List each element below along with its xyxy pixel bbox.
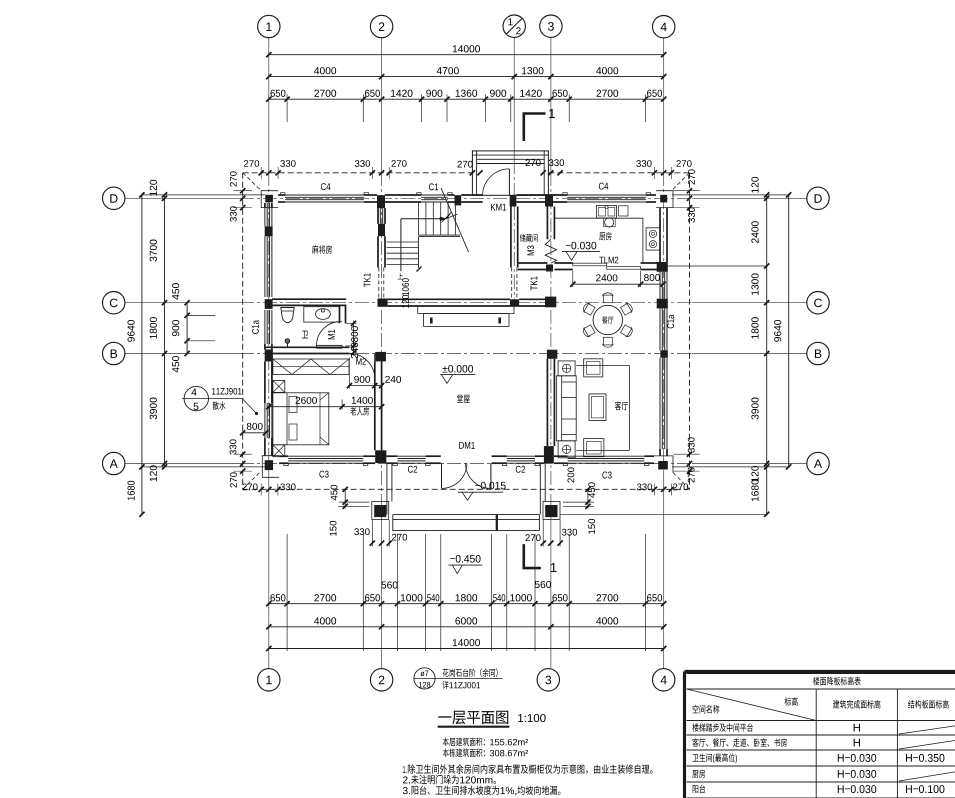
door M3 label — [527, 246, 534, 256]
window left mahjong glazing lower — [264, 236, 266, 297]
door TLM2 sliding leaves — [573, 263, 607, 266]
detail leader line with dot — [242, 399, 256, 414]
porch column left — [374, 505, 386, 517]
column D axis-2 — [377, 195, 385, 208]
bathroom label — [302, 331, 308, 339]
window C1a right label — [667, 315, 674, 329]
column A4 — [658, 461, 668, 470]
side table lower with lamp — [558, 441, 575, 458]
door M1 label — [328, 330, 335, 340]
note 1 — [403, 764, 652, 774]
stair landing edge double line — [418, 234, 460, 236]
step note text ref — [443, 681, 481, 689]
eave dim left bottom 330/270 rotated — [240, 452, 245, 457]
dining table round — [593, 305, 622, 334]
axis circle D right — [807, 187, 829, 209]
left extension lines horizontal — [142, 194, 265, 196]
corner pilaster outline D4 — [656, 191, 673, 208]
armchair upper — [584, 359, 603, 377]
window C1a right dining glazing — [659, 308, 661, 350]
door M1 dim 800 240 rotated — [353, 321, 355, 356]
kitchen counter edge — [554, 218, 643, 263]
door DM1 label — [459, 442, 475, 449]
section mark 1 top — [524, 114, 546, 142]
level table outer border — [685, 670, 955, 673]
wall B axis bathroom bottom — [265, 346, 350, 348]
window C1a right living glazing — [659, 358, 661, 449]
window C1 label — [429, 183, 438, 190]
eave overhang dashed line left — [242, 173, 244, 490]
column storage-kitchen junction — [546, 265, 553, 272]
side table upper with lamp — [558, 361, 575, 376]
wall axis-3 storage/kitchen — [546, 207, 548, 240]
right overall dimension 9640 — [788, 195, 790, 467]
right extension lines horizontal — [672, 194, 789, 196]
eave corner miter top-right — [672, 173, 690, 191]
column D axis-3 — [545, 195, 553, 207]
door M2 label — [356, 358, 366, 365]
porch column right — [545, 505, 557, 517]
level mark +-0.000 — [442, 365, 473, 373]
axis grid line 1 (vertical) — [268, 38, 270, 172]
column left wall mid mahjong — [265, 227, 273, 237]
porch column dim right 270/330 — [542, 520, 544, 547]
top dimension row 650..2700..650 — [269, 98, 664, 100]
wall left axis-1 segments — [264, 203, 266, 208]
wall axis-2 dashed opening under stair — [378, 268, 380, 298]
stair TK1 label left — [364, 273, 371, 287]
eave corner miter bottom-right — [672, 471, 690, 489]
column kitchen-sill axis-4 — [657, 262, 668, 272]
detail circle 4/5 — [184, 386, 208, 410]
door M2 swing arc — [374, 354, 376, 379]
axis circle 4 bottom — [653, 669, 675, 691]
coffee table — [589, 394, 606, 421]
floor drain — [285, 339, 290, 344]
main hall label — [457, 394, 470, 403]
eave dim top axis-2 330/270 — [370, 170, 375, 175]
door M3 folding zigzag — [545, 239, 556, 263]
level mark -0.015 porch — [475, 482, 506, 490]
column axis-2 mid mahjong wall — [378, 224, 385, 236]
axis grid line 2 (vertical) — [381, 38, 383, 172]
wall A axis solid segments — [279, 455, 288, 457]
top dimension extension lines — [286, 95, 288, 123]
bedroom label — [350, 407, 369, 415]
drawing title first floor plan — [438, 711, 508, 725]
axis circle C left — [103, 292, 125, 314]
window C3 right label — [602, 472, 611, 479]
wall C axis stair-hall bottom — [388, 298, 510, 300]
washbasin counter — [304, 307, 340, 322]
stair dim 1060 rotated — [402, 278, 409, 295]
window C4 left label — [321, 183, 330, 190]
column C axis-3 — [545, 297, 556, 308]
porch column dim left 330/270 — [371, 520, 373, 547]
axis circle 1 top — [258, 15, 280, 37]
door KM1 label — [491, 204, 506, 211]
window C1a left label — [252, 320, 259, 334]
eave dim bottom axis-4 330/270 — [652, 487, 657, 492]
column C axis-4 — [657, 299, 668, 309]
eave overhang dashed line right — [689, 173, 691, 490]
kitchen stove two burners — [646, 228, 660, 250]
window C2 left label — [408, 466, 417, 473]
axis circle 1 bottom — [258, 669, 280, 691]
wall axis-1/2 dashed opening — [511, 268, 513, 299]
nightstand lower — [273, 445, 285, 457]
sofa three-seat — [557, 376, 577, 441]
apron dim 800 — [243, 432, 266, 434]
column D axis-1/2 — [510, 195, 517, 206]
bed — [273, 393, 329, 445]
porch side edges left — [386, 463, 388, 514]
column B axis-3 — [547, 350, 557, 359]
porch column outline left — [372, 501, 389, 519]
axis grid line A (horizontal) — [125, 463, 240, 465]
kitchen basin round — [605, 218, 614, 227]
corner pilaster outline A1 — [262, 456, 279, 478]
stair flight boundary vertical — [417, 237, 419, 268]
porch side edges right — [544, 463, 546, 501]
eave overhang dashed line bottom — [243, 488, 690, 490]
door M2 dim 900 240 — [348, 358, 350, 389]
axis circle 4 top — [653, 16, 675, 38]
wall axis-2 stair/mahjong D-C — [377, 208, 379, 224]
column B axis-1 — [265, 350, 273, 362]
stair start tick — [417, 267, 422, 272]
top dimension row 14000 — [269, 54, 664, 56]
window C2 left glazing — [397, 455, 425, 457]
wall bathroom right — [339, 305, 341, 323]
eave dim top porch 270 — [470, 170, 475, 175]
window C3 left glazing — [288, 455, 363, 457]
column C axis-1 — [265, 299, 273, 309]
window left mahjong glazing upper — [264, 203, 266, 227]
kitchen dim 2400 800 — [572, 271, 574, 287]
porch steps — [393, 514, 540, 516]
hall platform below stair — [418, 306, 514, 313]
level table header labels — [785, 697, 798, 706]
window jamb marks top wall — [281, 193, 286, 195]
axis grid line 4 (vertical) — [663, 38, 665, 172]
window C4 right glazing — [567, 194, 646, 196]
window C1 glazing — [421, 194, 448, 196]
axis circle 2 top — [370, 15, 392, 37]
stair break zigzag — [442, 212, 458, 223]
step note circle phi7/128 — [414, 668, 435, 689]
right segment dimensions 120 2400 1300 1800 3900 120 1680 — [766, 195, 768, 514]
level table row 1 — [692, 723, 753, 732]
eave dim top axis-4 330/270 — [652, 170, 657, 175]
wall axis-3 hall/living B-A — [546, 359, 548, 446]
axis grid line C (horizontal) — [125, 302, 240, 304]
column C axis-2 — [378, 299, 388, 307]
window left bedroom glazing — [264, 403, 266, 438]
column C axis-1/2 — [510, 299, 519, 307]
eave dim right top 270/330 rotated — [687, 188, 692, 193]
wall axis-2 bedroom right B-A — [374, 361, 376, 450]
wardrobe — [273, 359, 349, 375]
section mark 1 bottom — [524, 544, 541, 568]
window C2 right label — [516, 466, 525, 473]
axis circle B right — [807, 342, 829, 364]
porch height dim right 450/150 — [587, 489, 589, 508]
column A axis-3 — [544, 446, 554, 463]
mahjong room label — [312, 245, 332, 254]
bedroom dim 2600 1400 — [341, 400, 343, 410]
axis circle 3 bottom — [537, 669, 559, 691]
corner pilaster outline D1 — [261, 191, 278, 208]
note area line 1 — [443, 737, 528, 746]
porch step center joint — [496, 515, 498, 531]
rug outline — [576, 365, 629, 367]
column B axis-4 — [660, 350, 667, 358]
stair up label — [398, 273, 403, 279]
entry porch walls — [472, 151, 548, 195]
axis circle B left — [103, 342, 125, 364]
axis circle A right — [807, 452, 829, 474]
window jamb marks bottom wall — [284, 463, 289, 465]
window C1a left (bathroom) glazing — [264, 310, 266, 344]
stair upper flight treads — [418, 202, 420, 235]
corner pilaster outline A4 — [654, 456, 673, 473]
stair TK1 label right — [531, 276, 538, 290]
bottom dimension row 14000 — [269, 648, 664, 650]
level mark -0.450 steps — [450, 555, 481, 563]
bottom dimension row 650.. — [269, 603, 664, 605]
eave dim top axis-3 270/330 — [541, 170, 546, 175]
left overall dimension 9640 — [141, 195, 143, 467]
eave dim left top 270/330 rotated — [240, 188, 245, 193]
wall right axis-4 segments — [659, 208, 661, 262]
living room label — [615, 401, 628, 410]
stair up arrow line — [400, 219, 402, 271]
dining chairs — [602, 293, 613, 303]
left sub dimensions 450 900 450 — [186, 303, 188, 354]
level mark -0.030 kitchen — [566, 242, 597, 250]
entry porch step line — [477, 163, 545, 165]
door TLM2 label — [599, 257, 618, 264]
stair lower flight treads — [387, 241, 419, 243]
porch height dim left 450/150 — [344, 489, 346, 508]
eave corner miter bottom-left — [243, 471, 262, 489]
armchair lower — [584, 439, 604, 457]
column A axis-2 — [375, 450, 386, 463]
level table grid — [687, 673, 955, 675]
axis grid line D (horizontal) — [125, 197, 240, 199]
eave dim top axis-1 270/330 — [259, 170, 264, 175]
column D1 — [265, 195, 273, 203]
axis grid line 3 (vertical) — [550, 38, 552, 172]
bottom dimension extension lines — [286, 534, 288, 651]
door M1 swing arc — [317, 345, 342, 348]
window C3 right glazing — [568, 455, 645, 457]
kitchen sink — [597, 206, 617, 219]
kitchen small appliance — [619, 206, 629, 216]
wall kitchen/storage bottom — [518, 262, 548, 264]
nightstand upper — [273, 381, 285, 393]
axis circle 3 top — [540, 15, 562, 37]
window C4 right label — [599, 183, 608, 190]
step note text granite steps — [443, 668, 498, 677]
wall C axis mahjong bottom — [272, 298, 346, 300]
axis circle C right — [807, 292, 829, 314]
wall axis-1/2 storage left — [510, 207, 512, 268]
level table row 5 — [693, 785, 706, 793]
level table row 2 — [692, 738, 787, 747]
level table row 4 — [692, 770, 705, 778]
stair dim 120 rotated — [402, 295, 409, 308]
eave dim bottom axis-1 270/330 — [259, 487, 264, 492]
window right kitchen glazing — [659, 272, 661, 299]
axis grid line B (horizontal) — [125, 353, 240, 355]
stair section diagonal — [441, 188, 469, 252]
note 3 — [403, 786, 561, 796]
pier dim 200 rotated — [567, 467, 574, 482]
axis circle D left — [103, 187, 125, 209]
kitchen label — [599, 232, 611, 240]
level table row 3 — [692, 753, 737, 763]
window C4 left glazing — [285, 194, 364, 196]
column B axis-2 — [375, 352, 386, 362]
note area line 2 — [443, 748, 528, 757]
left dimension extension 1680 line — [141, 467, 143, 514]
door DM1 leaves and arcs — [441, 463, 443, 488]
door KM1 leaf and arc — [508, 169, 510, 195]
dining room label — [602, 316, 613, 324]
storage room label — [520, 234, 538, 242]
note 2 — [403, 775, 496, 784]
eave overhang dashed line top — [243, 172, 473, 174]
toilet — [281, 308, 294, 323]
wall D axis solid segments — [278, 194, 285, 196]
left segment dimensions 120 3700 1800 3900 120 — [164, 195, 166, 467]
level table header diagonal — [687, 689, 817, 721]
column D C1-KM1 jamb — [455, 195, 462, 205]
eave dim right bottom 330/270 rotated — [687, 452, 692, 457]
eave corner miter top-left — [243, 173, 262, 191]
level table title — [813, 677, 861, 686]
window C2 right glazing — [507, 455, 535, 457]
axis circle 1/2 top — [503, 15, 525, 37]
axis grid line 1/2 (vertical) — [513, 38, 515, 160]
top dimension row 4000 4700 1300 4000 — [269, 76, 664, 78]
bottom dimension row 4000 6000 4000 — [269, 626, 664, 628]
window C3 left label — [319, 471, 328, 478]
axis circle 2 bottom — [370, 669, 392, 691]
axis circle A left — [103, 452, 125, 474]
column A1 — [265, 460, 273, 470]
porch column outline right — [543, 501, 560, 519]
column D4 — [660, 195, 667, 203]
